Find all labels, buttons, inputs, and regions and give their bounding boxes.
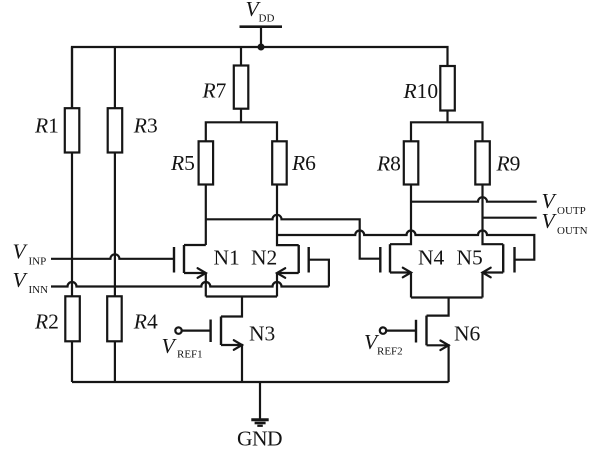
svg-text:N1: N1 — [214, 246, 240, 270]
svg-text:N2: N2 — [251, 246, 277, 270]
svg-text:R6: R6 — [291, 151, 316, 175]
svg-text:R4: R4 — [133, 310, 158, 334]
svg-text:R1: R1 — [34, 114, 59, 138]
svg-text:R8: R8 — [376, 152, 401, 176]
svg-text:R5: R5 — [170, 151, 195, 175]
svg-text:INN: INN — [29, 284, 49, 296]
svg-text:N3: N3 — [249, 322, 275, 346]
svg-text:R10: R10 — [403, 79, 439, 103]
svg-text:V: V — [162, 334, 178, 358]
svg-text:REF1: REF1 — [177, 349, 203, 361]
svg-text:INP: INP — [29, 256, 47, 268]
svg-text:OUTN: OUTN — [557, 225, 588, 237]
svg-text:N4: N4 — [418, 246, 445, 270]
svg-text:R3: R3 — [133, 114, 158, 138]
svg-text:DD: DD — [259, 13, 275, 25]
svg-text:GND: GND — [237, 427, 282, 450]
svg-text:N5: N5 — [457, 246, 483, 270]
svg-text:V: V — [542, 209, 558, 233]
svg-text:REF2: REF2 — [377, 346, 403, 358]
svg-text:N6: N6 — [454, 322, 481, 346]
svg-text:V: V — [13, 268, 29, 292]
svg-text:V: V — [13, 240, 29, 264]
svg-text:R2: R2 — [34, 310, 59, 334]
svg-text:OUTP: OUTP — [557, 205, 586, 217]
svg-text:R7: R7 — [202, 79, 227, 103]
svg-text:R9: R9 — [496, 152, 521, 176]
